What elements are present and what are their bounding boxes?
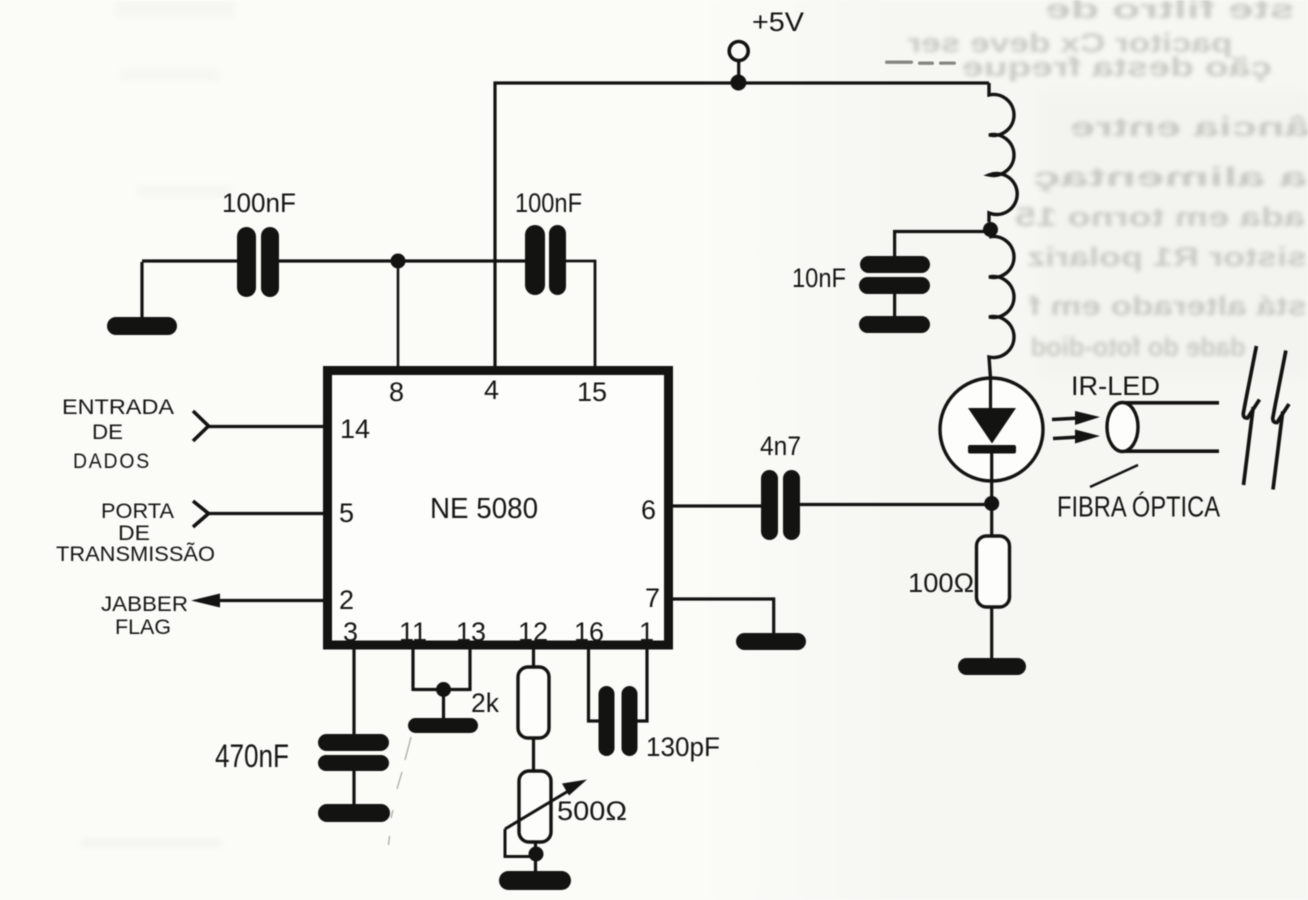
capacitor C2 100nF (second) <box>525 225 566 295</box>
svg-text:2: 2 <box>339 585 354 615</box>
wire: C3 to ground <box>352 771 355 805</box>
svg-text:ENTRADA: ENTRADA <box>62 395 175 419</box>
ground (10nF) <box>859 316 930 333</box>
LED D1 cathode bar <box>968 445 1016 454</box>
wire: anode lead inside LED <box>989 378 992 410</box>
wire: +5V rail from pin 4 riser across to coil top <box>495 83 989 366</box>
resistor R2 (fixed, above pot) <box>518 667 549 738</box>
wire: node A down to pin 8 <box>397 261 400 368</box>
svg-text:470nF: 470nF <box>215 738 289 774</box>
IC U1 NE5080 body <box>328 371 669 646</box>
svg-text:PORTA: PORTA <box>101 499 175 523</box>
svg-text:FLAG: FLAG <box>115 615 171 639</box>
svg-text:3: 3 <box>343 617 358 647</box>
wire: chevron to pin 5 <box>209 512 328 515</box>
svg-text:ste filtro de: ste filtro de <box>1045 0 1295 24</box>
wire: pot bottom to ground <box>534 842 537 872</box>
capacitor C3 470nF <box>318 734 389 771</box>
wire: ground to C1 left plate <box>142 259 237 262</box>
capacitor C1 100nF (left) <box>237 227 279 297</box>
svg-text:ada em torno 15: ada em torno 15 <box>1015 202 1305 232</box>
wire: pin 13 down <box>468 645 471 691</box>
fiber optic cylinder <box>1107 403 1219 452</box>
wire: C1 right plate to node A <box>279 259 398 262</box>
input chevron (pin 5) <box>193 501 209 527</box>
svg-text:a alimentaç: a alimentaç <box>1033 162 1308 192</box>
output arrow (pin 2, points left) <box>191 594 220 608</box>
ground (left of C1) <box>107 262 177 335</box>
ground (under R1) <box>958 658 1026 675</box>
+5V terminal <box>729 42 748 77</box>
IR LED D1 body <box>940 378 1043 481</box>
light flash symbol (left bolt) <box>1243 346 1259 485</box>
svg-text:sistor R1 polariz: sistor R1 polariz <box>1027 242 1307 272</box>
node A: junction above pin 8 <box>391 254 406 269</box>
wire: chevron to pin 14 <box>209 425 328 428</box>
capacitor C4 130pF <box>599 686 638 756</box>
svg-text:TRANSMISSÃO: TRANSMISSÃO <box>56 541 215 566</box>
svg-text:DE: DE <box>92 420 123 444</box>
svg-text:JABBER: JABBER <box>101 592 188 616</box>
svg-text:13: 13 <box>456 617 486 647</box>
label PORTA DE TRANSMISSAO <box>56 499 215 566</box>
wire: pin 12 down <box>532 645 535 668</box>
potentiometer P1 500 ohm body <box>519 771 551 842</box>
svg-text:7: 7 <box>645 583 660 613</box>
svg-text:16: 16 <box>574 617 604 647</box>
svg-text:10nF: 10nF <box>792 263 846 293</box>
node: LED cathode / R1 / C5 junction <box>984 496 999 511</box>
capacitor C5 4n7 <box>761 470 800 540</box>
node: coil tap junction (10nF) <box>983 222 998 237</box>
svg-text:5: 5 <box>339 498 354 528</box>
svg-text:500Ω: 500Ω <box>557 796 627 826</box>
svg-text:100nF: 100nF <box>515 188 582 218</box>
node: pot bottom junction <box>529 847 544 862</box>
ground (pins 11/13) <box>408 718 478 733</box>
wire: pin 16 down to C4 <box>589 645 600 721</box>
wire: pins 11-13 tie bar <box>413 688 470 691</box>
wire: coil tap to 10nF <box>895 232 990 258</box>
LED D1 anode triangle <box>968 408 1016 444</box>
svg-text:130pF: 130pF <box>646 732 720 762</box>
inductor L1 (coil to +5V) <box>989 83 1017 378</box>
svg-text:14: 14 <box>340 414 370 444</box>
svg-text:6: 6 <box>641 495 656 525</box>
svg-text:ção desta freque: ção desta freque <box>962 52 1272 82</box>
ground (pin 7) <box>736 633 806 650</box>
svg-text:8: 8 <box>389 377 404 407</box>
capacitor C6 10nF <box>859 256 930 294</box>
svg-text:+5V: +5V <box>752 7 804 37</box>
svg-text:100nF: 100nF <box>222 188 296 218</box>
svg-text:dade do foto-diod: dade do foto-diod <box>1031 332 1246 362</box>
svg-text:11: 11 <box>399 617 427 647</box>
wire: pin 11 down <box>411 645 414 691</box>
svg-text:4n7: 4n7 <box>760 431 801 461</box>
svg-text:DADOS: DADOS <box>73 449 151 473</box>
potentiometer wiper arrow <box>505 780 587 830</box>
light emission arrow (upper) <box>1052 411 1100 425</box>
wire: cathode lead down to node <box>990 453 993 537</box>
fiber pointer line <box>1090 465 1138 487</box>
ground (under C3) <box>318 804 390 822</box>
svg-text:12: 12 <box>518 617 548 647</box>
ground (under pot) <box>499 871 571 890</box>
node: pins 11/13 junction <box>436 682 451 697</box>
node: +5V junction on rail <box>730 75 746 91</box>
resistor R1 100 ohm <box>977 536 1010 607</box>
svg-text:FIBRA ÓPTICA: FIBRA ÓPTICA <box>1057 492 1220 524</box>
svg-text:1: 1 <box>639 617 654 647</box>
wire: pin 2 to arrow <box>218 599 327 602</box>
wire: pin 1 down to C4 <box>637 645 647 721</box>
svg-text:15: 15 <box>577 377 607 407</box>
wire: pin 3 down <box>352 645 355 736</box>
wire: R2 to pot <box>532 738 535 772</box>
wire: junction to ground stub <box>442 690 445 720</box>
wire: pin 7 to ground <box>672 599 774 634</box>
wire: C5 to LED cathode node <box>800 503 992 506</box>
wire: R1 to ground <box>990 607 993 660</box>
wire: pin 6 to C5 <box>672 504 761 507</box>
label ENTRADA DE DADOS <box>62 395 175 473</box>
svg-text:4: 4 <box>484 375 499 405</box>
svg-text:ância entre: ância entre <box>1070 112 1308 142</box>
wire: C2 right plate to pin 15 <box>566 261 595 368</box>
input chevron (pin 14) <box>193 411 209 441</box>
svg-text:NE 5080: NE 5080 <box>430 493 538 525</box>
label JABBER FLAG <box>101 592 188 639</box>
svg-text:IR-LED: IR-LED <box>1071 371 1160 401</box>
svg-text:2k: 2k <box>471 688 499 718</box>
wire: wiper tied to bottom (rheostat) <box>505 829 536 857</box>
wire: node A across to C2 left plate <box>398 259 525 262</box>
svg-text:stá alterado em f: stá alterado em f <box>1028 291 1307 321</box>
wire: 10nF to ground <box>893 293 896 317</box>
light flash symbol (right bolt) <box>1273 351 1289 490</box>
light emission arrow (lower) <box>1053 430 1100 444</box>
svg-text:100Ω: 100Ω <box>908 568 974 598</box>
